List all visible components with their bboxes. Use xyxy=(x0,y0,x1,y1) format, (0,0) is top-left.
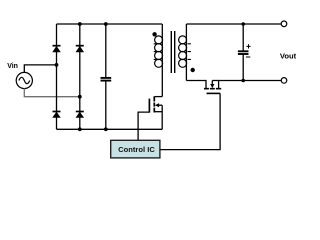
wire bottom rail (bridge to Q1 source) xyxy=(57,128,163,130)
junction top rail / branch 2 xyxy=(78,22,82,26)
wire Vin bottom to bridge node B (gray) xyxy=(24,89,80,97)
transformer T1 secondary polarity dot xyxy=(191,68,195,72)
junction top rail / C1 xyxy=(104,22,108,26)
svg-text:Vin: Vin xyxy=(7,63,18,70)
AC source V1 (Vin) xyxy=(16,72,32,88)
Control IC U1 xyxy=(111,140,160,158)
wire Vin top to bridge node A xyxy=(24,65,56,73)
MOSFET Q2 gate bar xyxy=(207,92,221,94)
terminal Vout+ xyxy=(281,21,287,27)
junction bottom rail / branch 2 xyxy=(78,127,82,131)
wire secondary top rail xyxy=(186,23,281,25)
junction top rail / C2 xyxy=(241,22,245,26)
C2 plus sign xyxy=(246,44,250,48)
MOSFET Q1 (primary switch) drain lead xyxy=(155,96,162,98)
svg-text:Vout: Vout xyxy=(280,51,297,60)
transformer T1 core xyxy=(171,31,174,73)
MOSFET Q1 body arrow xyxy=(155,103,162,107)
node A (Vin+ to bridge) xyxy=(55,63,59,67)
transformer T1 secondary winding xyxy=(179,24,191,81)
MOSFET Q2 body arrow xyxy=(210,81,214,89)
MOSFET Q2 (sync rectifier) drain lead xyxy=(186,81,206,89)
MOSFET Q1 source stub xyxy=(155,111,162,113)
wire Q1 gate to Control IC xyxy=(138,112,149,140)
transformer T1 primary winding xyxy=(154,24,163,97)
wire Q2 top line (source side continues) xyxy=(212,80,218,82)
diode D1 (upper left) xyxy=(53,46,61,52)
transformer T1 primary polarity dot xyxy=(152,32,156,36)
wire bridge branch 1 xyxy=(56,24,58,129)
MOSFET Q1 gate bar xyxy=(148,99,150,113)
diode D3 (lower left) xyxy=(53,112,61,118)
svg-text:Control IC: Control IC xyxy=(118,145,155,154)
capacitor C1 (input bulk) xyxy=(105,24,107,77)
capacitor C2 (output) xyxy=(242,24,244,51)
C2 minus sign xyxy=(246,56,250,58)
diode D2 (upper right) xyxy=(76,46,84,52)
junction bottom rail / C2 xyxy=(241,79,245,83)
wire Control IC to Q2 gate xyxy=(160,93,220,149)
MOSFET Q2 source stub and lead to output rail xyxy=(219,81,282,89)
MOSFET Q2 channel bar xyxy=(204,88,221,90)
node B (Vin- to bridge) xyxy=(78,95,82,99)
wire bridge branch 2 xyxy=(79,24,81,129)
diode D4 (lower right) xyxy=(76,112,84,118)
junction bottom rail / C1 xyxy=(104,127,108,131)
wire top rail (bridge to primary) xyxy=(57,23,163,25)
wire Q1 source to bottom rail xyxy=(161,105,163,129)
terminal Vout- xyxy=(281,78,287,84)
MOSFET Q1 channel bar xyxy=(153,96,155,112)
